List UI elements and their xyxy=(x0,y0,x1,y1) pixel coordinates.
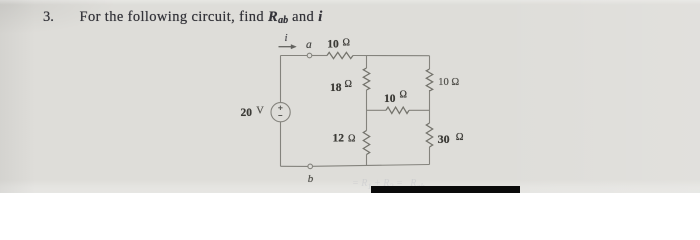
svg-text:Ω: Ω xyxy=(343,37,350,48)
svg-text:Ω: Ω xyxy=(348,133,355,144)
svg-text:30: 30 xyxy=(438,132,450,146)
svg-text:b: b xyxy=(308,173,314,185)
svg-text:20: 20 xyxy=(241,107,253,119)
svg-text:10: 10 xyxy=(327,39,339,51)
svg-text:10 Ω: 10 Ω xyxy=(438,77,459,88)
svg-text:Ω: Ω xyxy=(400,90,407,101)
svg-text:i: i xyxy=(285,32,288,44)
svg-text:12: 12 xyxy=(333,132,345,144)
svg-text:18: 18 xyxy=(330,82,342,94)
svg-text:10: 10 xyxy=(384,93,396,105)
svg-text:a: a xyxy=(306,39,312,51)
svg-text:V: V xyxy=(256,105,264,116)
svg-text:Ω: Ω xyxy=(456,132,464,143)
svg-text:Ω: Ω xyxy=(345,79,352,90)
